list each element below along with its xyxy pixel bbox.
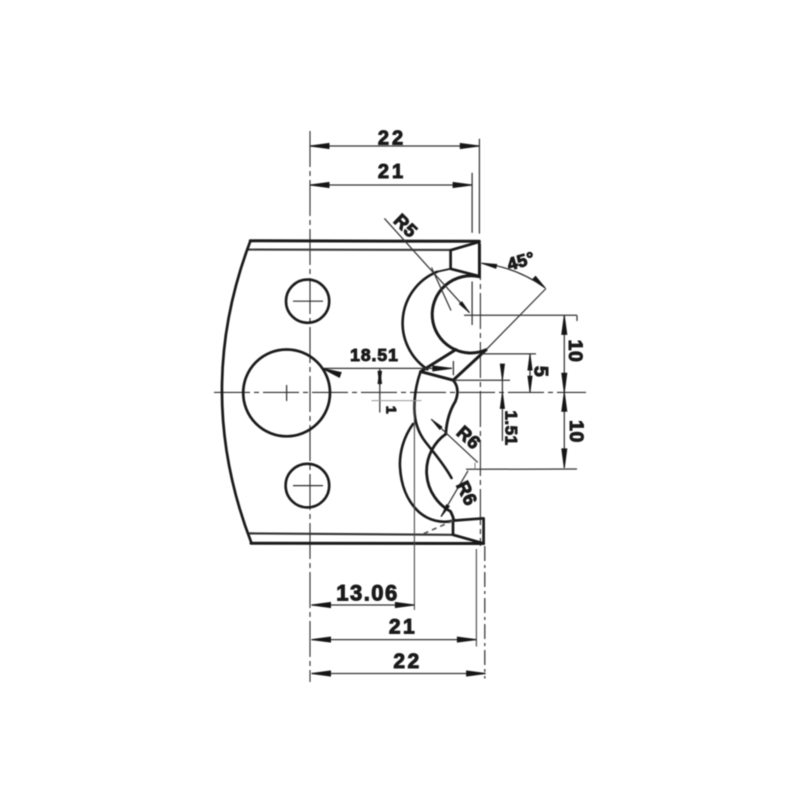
svg-text:22: 22 xyxy=(378,128,406,150)
svg-text:21: 21 xyxy=(378,161,406,183)
svg-text:10: 10 xyxy=(565,420,587,443)
svg-text:10: 10 xyxy=(564,340,586,363)
svg-text:R5: R5 xyxy=(390,210,422,242)
svg-text:1: 1 xyxy=(384,406,400,414)
svg-text:21: 21 xyxy=(389,616,417,639)
svg-text:5: 5 xyxy=(530,366,552,377)
svg-text:18.51: 18.51 xyxy=(350,345,399,365)
svg-text:R6: R6 xyxy=(452,478,482,509)
svg-text:13.06: 13.06 xyxy=(336,581,399,606)
svg-text:1.51: 1.51 xyxy=(502,410,521,445)
svg-text:22: 22 xyxy=(393,650,421,673)
svg-text:45°: 45° xyxy=(505,248,537,275)
